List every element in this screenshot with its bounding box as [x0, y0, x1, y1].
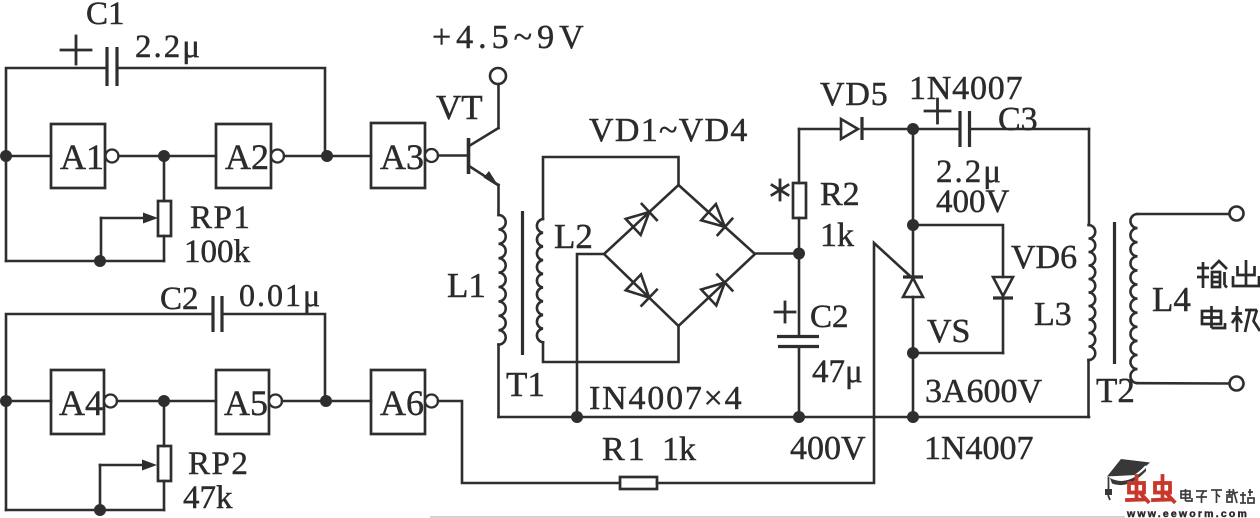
wire VD5 node down to VS	[912, 129, 915, 225]
svg-text:0.01μ: 0.01μ	[239, 277, 322, 313]
node dot bridge output	[793, 248, 805, 260]
potentiometer RP2	[158, 401, 171, 510]
wire A5 output to A6 input	[282, 400, 371, 403]
gate A1	[51, 124, 119, 188]
hanzi ji (极)	[1232, 306, 1260, 332]
T2 core	[1113, 222, 1116, 364]
wire A2 output to A3 input	[284, 155, 371, 158]
svg-text:T2: T2	[1096, 371, 1135, 410]
node dot VD5/C3	[907, 123, 919, 135]
transistor VT	[438, 84, 499, 215]
svg-text:L2: L2	[554, 217, 593, 256]
wire C3 right down to T2	[1088, 129, 1091, 225]
RP2 wiper arrow	[100, 460, 157, 511]
wire A6 output to R1	[438, 401, 620, 483]
node C2 negative on rail	[793, 411, 805, 423]
wire L1 bottom	[497, 345, 500, 417]
svg-text:VD5: VD5	[820, 76, 889, 113]
red hanzi chong (虫) 1	[1127, 476, 1148, 502]
svg-text:A1: A1	[60, 137, 104, 177]
wire bridge left corner to ground rail	[577, 254, 604, 417]
capacitor C1	[107, 47, 117, 86]
wire VD6 bottom to VS bottom	[913, 352, 1003, 355]
red hanzi chong (虫) 2	[1153, 476, 1174, 502]
node VS cathode branch on rail	[907, 411, 919, 423]
svg-text:A2: A2	[225, 137, 269, 177]
node A1 input rail junction	[0, 150, 12, 162]
winding L2	[537, 219, 543, 342]
gate A6	[371, 370, 438, 434]
wire A4 output to A5 input	[117, 400, 216, 403]
polarity plus of C1	[61, 36, 91, 64]
node RP2 wiper junction	[94, 504, 106, 516]
winding L3	[1089, 225, 1096, 360]
svg-text:L3: L3	[1034, 296, 1072, 333]
wire bridge right corner to R2 node	[755, 252, 799, 255]
gray hanzi: dian zi xia zai zhan (电子下载站)	[1181, 489, 1254, 503]
svg-text:L4: L4	[1152, 280, 1191, 319]
svg-text:VS: VS	[927, 313, 970, 350]
capacitor C3	[913, 99, 1089, 147]
svg-text:3A600V: 3A600V	[925, 373, 1043, 410]
capacitor C2 47u electrolytic	[775, 254, 819, 418]
wire VS bottom to rail	[912, 353, 915, 417]
wire L3 bottom to rail	[1087, 360, 1090, 417]
svg-text:C3: C3	[998, 101, 1038, 138]
gate A2	[216, 124, 284, 188]
wire L2 top to bridge top	[543, 157, 679, 219]
hanzi shu (输)	[1197, 261, 1227, 288]
svg-text:VD1~VD4: VD1~VD4	[589, 112, 749, 149]
VS gate wire to R1	[657, 243, 910, 483]
thyristor VS	[903, 225, 923, 353]
diode VD4 lower-right	[701, 275, 732, 306]
svg-text:1k: 1k	[820, 217, 854, 254]
node A2 output / C1 junction	[321, 150, 333, 162]
node A4 input rail junction	[0, 395, 12, 407]
svg-text:RP2: RP2	[188, 446, 249, 482]
capacitor C2 (timing)	[213, 296, 222, 332]
svg-text:C1: C1	[86, 0, 125, 32]
bridge frame	[604, 185, 755, 326]
node A5 output / C2 junction	[320, 395, 332, 407]
wire C2 right lead down to A5 output node	[222, 314, 325, 401]
svg-text:VD6: VD6	[1011, 239, 1077, 276]
node bridge negative on rail	[571, 411, 583, 423]
svg-text:www.eeworm.com: www.eeworm.com	[1126, 508, 1249, 518]
wire left rail to A1 input	[6, 155, 51, 158]
wire bottom feedback row1	[6, 260, 164, 263]
graduation cap icon	[1105, 459, 1150, 500]
svg-text:+4.5~9V: +4.5~9V	[432, 19, 589, 56]
hanzi dian (电)	[1202, 306, 1225, 328]
resistor R1	[620, 477, 657, 489]
svg-text:400V: 400V	[790, 430, 866, 467]
wire C1 right lead down to A2 output node	[117, 68, 325, 156]
wire L4 bottom to terminal	[1138, 382, 1230, 385]
winding L1	[499, 215, 506, 345]
svg-text:A3: A3	[380, 137, 424, 177]
gate A5	[216, 370, 282, 434]
wire VS top to VD6 top	[913, 225, 1003, 277]
svg-text:A6: A6	[380, 383, 424, 423]
hanzi chu (出)	[1233, 260, 1259, 286]
svg-text:L1: L1	[447, 266, 486, 305]
diode VD6	[993, 277, 1013, 353]
svg-text:R1: R1	[602, 431, 648, 468]
wire left rail to A4 input	[6, 400, 51, 403]
svg-text:RP1: RP1	[190, 200, 251, 236]
node RP1 wiper junction	[94, 255, 106, 267]
wire L2 bottom to bridge bottom	[543, 326, 679, 362]
svg-text:400V: 400V	[936, 184, 1010, 220]
node A4 output / RP2 junction	[158, 395, 170, 407]
svg-text:A4: A4	[59, 383, 103, 423]
diode VD1 upper-left	[626, 204, 657, 235]
svg-text:VT: VT	[436, 88, 483, 127]
svg-text:47k: 47k	[183, 480, 233, 516]
wire bottom feedback row2	[6, 509, 164, 512]
diode VD5	[799, 117, 913, 140]
RP1 wiper arrow	[101, 213, 158, 262]
svg-text:2.2μ: 2.2μ	[135, 29, 202, 65]
power terminal +4.5~9V	[490, 68, 506, 84]
wire C2 left lead and left rail	[6, 314, 213, 510]
svg-text:T1: T1	[506, 365, 545, 404]
T1 core	[521, 211, 524, 355]
winding L4	[1130, 214, 1137, 383]
potentiometer RP1	[158, 156, 171, 261]
svg-text:A5: A5	[224, 383, 268, 423]
wire L4 top to terminal	[1138, 213, 1230, 216]
resistor R2	[793, 129, 806, 254]
svg-text:100k: 100k	[184, 234, 251, 270]
svg-text:R2: R2	[820, 176, 860, 213]
gate A4	[51, 370, 117, 434]
output terminal top	[1230, 207, 1244, 221]
wire A1 output to A2 input	[119, 155, 217, 158]
diode VD3 lower-left	[626, 274, 657, 305]
gate A3	[371, 123, 438, 188]
svg-text:IN4007×4: IN4007×4	[589, 380, 743, 417]
asterisk mark	[772, 180, 788, 200]
output terminal bottom	[1230, 377, 1244, 391]
wire C1 left lead and left rail	[6, 68, 107, 261]
svg-text:47μ: 47μ	[812, 354, 863, 390]
svg-text:C2: C2	[810, 299, 849, 335]
svg-text:1k: 1k	[662, 431, 696, 468]
svg-text:1N4007: 1N4007	[924, 430, 1034, 467]
node A1 output / RP1 junction	[158, 150, 170, 162]
diode VD2 upper-right	[701, 204, 732, 235]
svg-text:C2: C2	[160, 281, 199, 317]
